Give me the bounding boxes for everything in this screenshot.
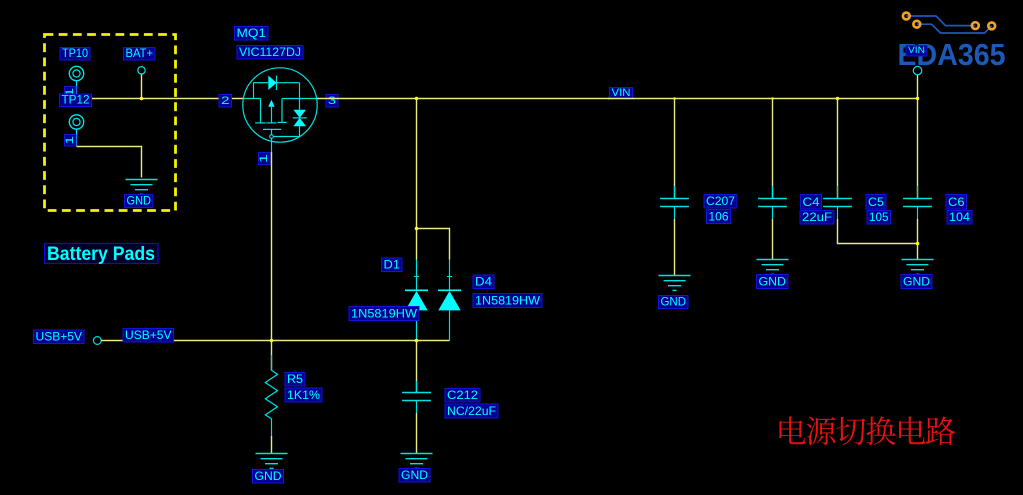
label TP12: [60, 94, 92, 107]
label C6: [946, 195, 967, 210]
svg-text:106: 106: [709, 210, 729, 224]
label USB+5V net: [123, 329, 174, 343]
label MQ1: [235, 27, 269, 41]
junction C5/C6 gnd: [916, 242, 920, 246]
label GND C6: [901, 275, 932, 289]
terminal VIN circle: [913, 66, 921, 74]
ground C4: [757, 260, 789, 275]
pin 3 label: [326, 95, 338, 108]
svg-text:TP12: TP12: [62, 93, 90, 107]
wire D4 anode: [417, 340, 450, 342]
wire bus to D1: [416, 99, 418, 260]
label NC/22uF: [445, 404, 498, 418]
diode D4 1N5819HW: [438, 260, 461, 341]
label 105: [867, 211, 891, 225]
wire VIN bus: [317, 98, 918, 100]
terminal BAT+ circle: [138, 67, 145, 74]
svg-text:GND: GND: [255, 469, 282, 483]
label GND C207: [659, 296, 689, 309]
svg-text:C212: C212: [447, 388, 478, 402]
svg-text:NC/22uF: NC/22uF: [447, 404, 496, 418]
junction bus: [673, 97, 675, 99]
capacitor C207 106: [674, 99, 676, 199]
battery pads selection box: [45, 35, 176, 211]
svg-text:105: 105: [869, 210, 889, 224]
junction C212 top: [415, 339, 419, 343]
svg-text:TP10: TP10: [62, 46, 88, 60]
pin 1 label TP12: [65, 135, 77, 147]
wire to D4: [417, 229, 450, 260]
label C5: [866, 195, 886, 210]
label 1N5819HW D4: [473, 294, 542, 308]
svg-text:D4: D4: [475, 275, 492, 289]
transistor MQ1 VIC1127DJ: [243, 68, 317, 152]
logo EDA365 traces: [906, 16, 991, 33]
svg-text:D1: D1: [384, 258, 401, 272]
junction BAT+: [140, 97, 144, 101]
junction R5 top: [270, 339, 274, 343]
label GND C212: [399, 469, 430, 483]
testpoint TP10 pad: [69, 66, 83, 98]
svg-text:C4: C4: [803, 195, 820, 209]
junction bus: [415, 97, 418, 100]
junction bus: [771, 97, 773, 99]
label GND battery: [125, 195, 154, 208]
svg-text:GND: GND: [759, 275, 787, 289]
ground C5 C6: [902, 260, 934, 275]
capacitor C212 NC/22uF: [416, 341, 418, 393]
label TP10: [60, 48, 90, 61]
logo pads: [903, 13, 910, 20]
label R5: [285, 373, 305, 387]
junction bus: [836, 97, 839, 100]
diode D1 1N5819HW: [405, 260, 428, 341]
capacitor C4 22uF: [772, 99, 774, 199]
svg-text:1: 1: [64, 136, 76, 145]
label C207: [704, 195, 737, 209]
capacitor C5 105: [837, 99, 839, 199]
wire USB+5V rail: [101, 340, 416, 342]
label GND C4: [757, 275, 789, 289]
svg-text:VIN: VIN: [612, 87, 631, 99]
svg-text:GND: GND: [127, 194, 152, 208]
label D1: [382, 258, 403, 272]
label 104: [947, 211, 972, 225]
label 1N5819HW D1: [349, 307, 419, 321]
ground C212: [401, 454, 433, 469]
terminal USB circle: [93, 337, 101, 345]
title Battery Pads: [45, 244, 159, 264]
svg-text:VIN: VIN: [908, 45, 925, 56]
label USB+5V port: [34, 330, 85, 344]
wire TP12 to GND: [77, 147, 142, 178]
svg-text:Battery Pads: Battery Pads: [47, 244, 155, 265]
svg-text:GND: GND: [401, 468, 428, 482]
junction D branch: [415, 227, 419, 231]
label BAT+: [124, 48, 156, 61]
svg-text:104: 104: [949, 210, 970, 224]
label 106: [707, 210, 731, 224]
svg-text:GND: GND: [903, 275, 930, 289]
label C4: [801, 195, 822, 210]
wire VIN riser: [917, 75, 919, 99]
svg-text:22uF: 22uF: [802, 210, 832, 224]
svg-text:1K1%: 1K1%: [287, 388, 320, 402]
label D4: [473, 275, 494, 289]
testpoint TP12 pad: [69, 115, 83, 147]
label GND R5: [253, 470, 284, 484]
svg-text:C207: C207: [706, 194, 735, 208]
svg-text:GND: GND: [661, 295, 687, 309]
svg-text:USB+5V: USB+5V: [36, 330, 83, 344]
svg-text:2: 2: [221, 95, 230, 107]
ground C207: [659, 276, 691, 291]
wire BAT+ drop: [141, 74, 143, 99]
node VIN: [610, 88, 633, 100]
node VIN top: [906, 46, 927, 57]
ground battery: [126, 180, 158, 195]
wire BAT+ to MQ1 pin 2: [77, 98, 244, 100]
svg-text:C5: C5: [868, 195, 884, 209]
label VIC1127DJ: [237, 46, 303, 60]
svg-text:C6: C6: [948, 195, 965, 209]
svg-text:R5: R5: [287, 372, 303, 386]
pin 1 label: [259, 153, 271, 165]
pin 2 label: [219, 95, 232, 108]
svg-text:1: 1: [258, 154, 270, 163]
caption 电源切换电路: [779, 416, 955, 445]
svg-text:3: 3: [328, 95, 336, 107]
ground R5: [256, 454, 288, 469]
label 22uF: [800, 211, 834, 225]
svg-text:1N5819HW: 1N5819HW: [475, 294, 541, 308]
svg-text:USB+5V: USB+5V: [125, 328, 172, 342]
svg-text:VIC1127DJ: VIC1127DJ: [239, 45, 301, 59]
resistor R5 1K1%: [265, 341, 277, 454]
svg-text:BAT+: BAT+: [126, 46, 154, 60]
svg-text:1N5819HW: 1N5819HW: [351, 307, 418, 321]
junction bus: [916, 97, 919, 100]
label 1K1%: [285, 388, 322, 402]
label C212: [445, 389, 480, 403]
capacitor C6 104: [917, 99, 919, 199]
svg-text:MQ1: MQ1: [237, 26, 267, 40]
wire MQ1 pin1 down: [271, 152, 273, 341]
pin 1 label TP10: [65, 87, 77, 99]
